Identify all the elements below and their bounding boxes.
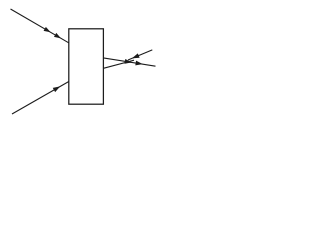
arrowhead 1 on right output ray bbox=[125, 59, 132, 64]
arrowhead 1 on upper-left ray bbox=[44, 27, 51, 32]
arrowhead on lower-left ray bbox=[53, 86, 60, 92]
arrowhead on upper-right incoming ray bbox=[132, 53, 140, 58]
wire: right output ray bbox=[103, 58, 155, 66]
wire: upper-left incident ray bbox=[11, 9, 69, 43]
arrowhead 2 on upper-left ray bbox=[54, 33, 61, 38]
arrowhead 2 on right output ray bbox=[135, 61, 142, 66]
wire: lower right rising stub from box bbox=[103, 60, 134, 68]
wire: lower-left incident ray bbox=[12, 82, 69, 115]
wire: upper-right incoming ray bbox=[128, 50, 152, 60]
block U1 (rectangle) bbox=[69, 29, 104, 104]
